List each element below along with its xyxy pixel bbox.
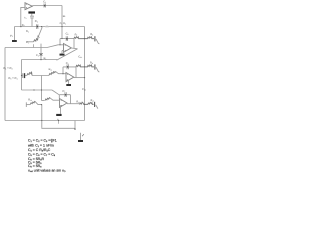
node dot bottom wire x58 xyxy=(58,120,59,121)
svg-text:C4: C4 xyxy=(36,54,39,57)
op-amp A1 xyxy=(25,3,32,10)
capacitor C7 (A4 loop) xyxy=(65,92,66,97)
svg-text:C61: C61 xyxy=(78,55,82,58)
tiny component labels xyxy=(3,0,94,121)
svg-text:R5: R5 xyxy=(63,15,66,18)
wire to A3 minus xyxy=(56,71,67,73)
wire row y90 xyxy=(22,89,53,91)
rail C resistor left (tilted) xyxy=(80,102,85,104)
A4 minus wire xyxy=(42,100,45,102)
rail C terminal xyxy=(94,102,96,107)
wire C1 to corner xyxy=(46,5,62,7)
svg-text:C1: C1 xyxy=(43,0,46,3)
A2 feedback loop left xyxy=(59,39,61,45)
resistor R3 (tilted) xyxy=(34,38,38,42)
ground bottom stem xyxy=(80,133,82,140)
ground A3 xyxy=(66,84,71,86)
stub above row y47 xyxy=(33,44,35,47)
lower loop vertical xyxy=(74,121,76,129)
svg-text:R3: R3 xyxy=(37,36,40,39)
svg-text:R9: R9 xyxy=(90,62,93,65)
ground A4 xyxy=(56,114,61,116)
svg-text:C7: C7 xyxy=(62,90,65,93)
cap blobs xyxy=(36,26,68,96)
wire lower-left of R3 xyxy=(27,41,34,43)
lower loop horizontal xyxy=(42,127,75,130)
wire after C3 xyxy=(38,26,84,28)
svg-text:v1: v1 xyxy=(10,34,13,39)
op-amp A2 xyxy=(64,44,72,53)
node dot A3 out bus xyxy=(84,77,85,78)
A3 loop top xyxy=(63,66,76,68)
rail B resistor left xyxy=(76,65,85,67)
svg-text:C62: C62 xyxy=(82,88,86,91)
svg-text:C3 = C4: C3 = C4 xyxy=(8,76,17,80)
svg-text:R13: R13 xyxy=(91,99,95,102)
equation text block xyxy=(28,138,66,173)
op-amp A4 xyxy=(60,99,68,108)
svg-text:C2: C2 xyxy=(35,19,38,23)
tick near bottom ground xyxy=(82,134,84,136)
A2 loop right xyxy=(73,39,75,48)
node dot A3 minus xyxy=(62,73,63,74)
node dot input row xyxy=(20,26,21,27)
node dot A2 minus xyxy=(59,44,60,45)
A2 ground stem xyxy=(62,51,64,54)
resistor A4 minus (tilted) xyxy=(45,98,50,101)
svg-text:R6: R6 xyxy=(63,22,66,25)
svg-text:R10: R10 xyxy=(49,68,53,71)
wire row y104 left xyxy=(27,104,31,106)
op-amp A3 xyxy=(66,73,74,82)
ground bottom xyxy=(78,140,83,142)
capacitor C5 (A2 loop) xyxy=(66,36,67,41)
node dot rail B bus xyxy=(84,66,85,67)
wire row y59 xyxy=(22,59,58,61)
resistor small faint on input row xyxy=(45,26,48,28)
vertical to cap C4 xyxy=(40,44,42,54)
rail A terminal xyxy=(94,36,96,41)
wire A1 minus input xyxy=(21,7,25,26)
svg-text:R8: R8 xyxy=(90,33,93,36)
node dot row2 xyxy=(40,59,41,60)
svg-text:C5: C5 xyxy=(66,32,69,35)
A2 output xyxy=(71,47,77,50)
A3 output xyxy=(74,77,85,79)
long diagonal A2 out to row y59 xyxy=(57,49,78,60)
svg-text:vout unit values an sm vO: vout unit values an sm vO xyxy=(28,169,66,174)
bottom stub xyxy=(58,121,60,124)
capacitor C3 (series, input row) xyxy=(37,24,38,29)
svg-text:A1: A1 xyxy=(24,17,27,20)
input source vertical xyxy=(14,27,16,41)
node dot input row right xyxy=(41,26,42,27)
svg-text:R12: R12 xyxy=(28,99,32,102)
rail A resistor right xyxy=(85,37,95,39)
wire input row xyxy=(15,26,37,28)
svg-text:R7: R7 xyxy=(75,33,78,36)
wire row y75 xyxy=(22,75,50,77)
wire top right vertical xyxy=(61,6,63,39)
junction dots xyxy=(20,26,85,130)
resistor to A3 minus (tilted) xyxy=(49,71,56,75)
node dot rail A bus xyxy=(84,38,85,39)
eq fraction bar xyxy=(50,139,52,141)
wire to A4 minus xyxy=(50,98,59,100)
svg-text:C6: C6 xyxy=(66,62,69,65)
A4 loop left xyxy=(58,95,60,99)
vertical x41-42 down xyxy=(41,105,43,128)
resistor row y104 (tilted) xyxy=(30,101,35,104)
node dot row3 left xyxy=(21,75,22,76)
node dot x41 y104 xyxy=(41,104,42,105)
A4 ground stem xyxy=(60,106,61,114)
resistor row3 tilted xyxy=(27,72,32,76)
vertical x41 xyxy=(41,76,43,101)
rail A resistor left xyxy=(74,37,85,39)
source bottom bar xyxy=(12,40,17,42)
wire right bus xyxy=(84,27,86,121)
ground A2 xyxy=(60,54,65,56)
rail B resistor right xyxy=(85,65,95,67)
diagonal y90 to A4 loop xyxy=(52,90,59,95)
diagonal to A2 minus xyxy=(47,45,64,48)
svg-text:R11: R11 xyxy=(76,100,80,103)
cap C1 blob xyxy=(44,5,46,7)
A2 loop top xyxy=(60,38,74,40)
rail C resistor right xyxy=(85,102,94,104)
A3 ground stem xyxy=(66,80,69,84)
left mid vertical xyxy=(21,60,23,91)
capacitor C2 (under A1) xyxy=(30,14,34,27)
terminal bar row y104 xyxy=(25,102,27,107)
wire row y47 xyxy=(5,47,47,49)
node dot row y90 xyxy=(33,89,34,90)
cap C4 stem to row2 xyxy=(40,55,42,59)
node dot lower loop corner xyxy=(74,128,76,130)
node dot top vertical xyxy=(61,26,62,27)
left bus xyxy=(4,48,6,121)
node dot bottom wire x42 xyxy=(41,120,42,121)
svg-text:C1 = C2: C1 = C2 xyxy=(3,66,12,70)
svg-text:vo: vo xyxy=(57,118,59,121)
svg-text:R1: R1 xyxy=(22,24,25,27)
node dot rail C bus xyxy=(84,104,85,105)
capacitor C4 (horizontal plates) xyxy=(39,54,43,56)
node dot A2 loop top xyxy=(61,38,62,39)
capacitor row3 series xyxy=(23,73,25,78)
svg-text:R4: R4 xyxy=(44,57,47,60)
diagonal R3 to input row xyxy=(38,27,42,38)
capacitor C1 (series, top) xyxy=(44,4,45,8)
wire to x41 junction xyxy=(36,102,42,105)
bottom wire xyxy=(5,120,85,122)
wire A1 output xyxy=(32,5,44,7)
node dot x41 y90 xyxy=(41,89,42,90)
dark label block under A1 xyxy=(28,11,35,13)
A4 loop right xyxy=(70,95,72,104)
rail B terminal xyxy=(94,64,96,69)
A3 loop right xyxy=(75,67,77,78)
A4 loop top xyxy=(59,94,70,96)
opamp input polarity marks xyxy=(26,5,68,106)
capacitor C6 (A3 loop) xyxy=(67,65,68,70)
svg-text:R2: R2 xyxy=(26,30,29,33)
A3 loop left xyxy=(62,67,64,74)
A4 output xyxy=(67,103,80,105)
